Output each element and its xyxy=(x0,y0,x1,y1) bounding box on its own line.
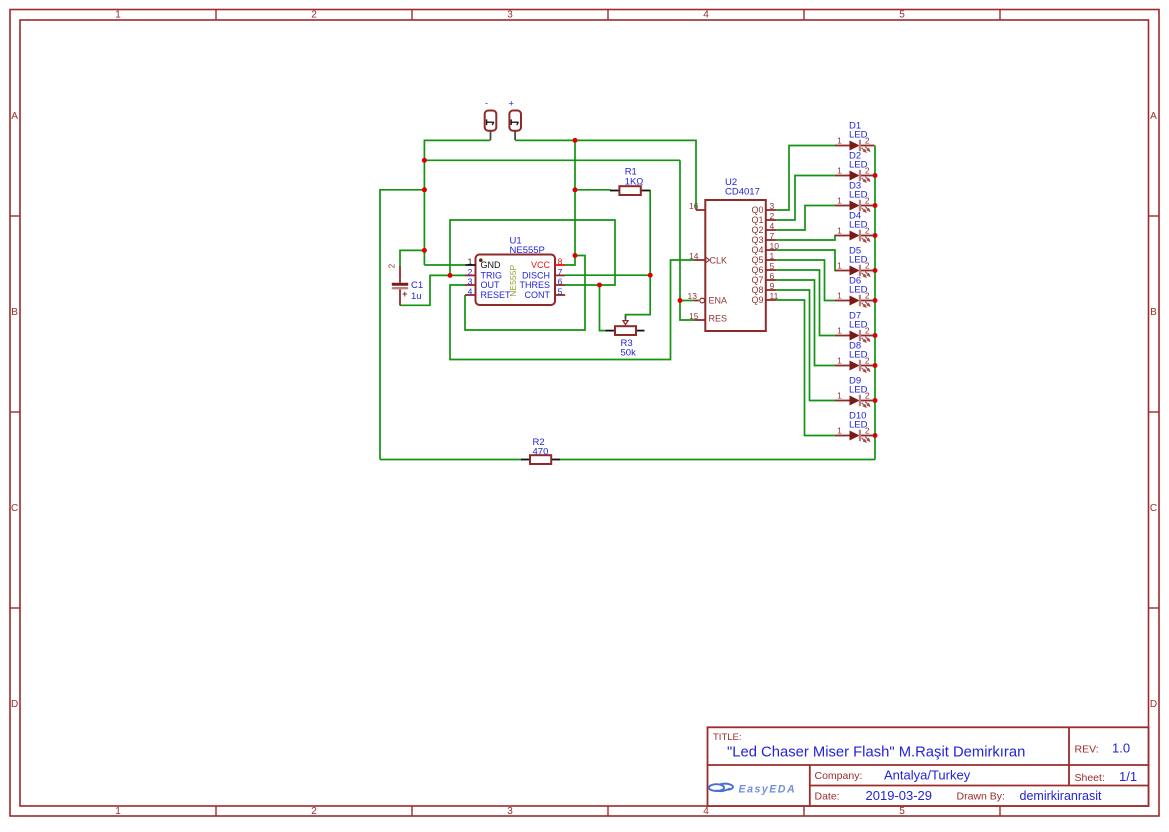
wire plus vertical x575 xyxy=(574,140,576,256)
svg-text:B: B xyxy=(1150,307,1157,318)
junction dot THRES node xyxy=(597,283,602,288)
junction dot rail2 branch xyxy=(422,158,427,163)
LED D5 xyxy=(835,265,875,277)
wire battery-minus top rail xyxy=(424,139,490,141)
svg-text:C1: C1 xyxy=(411,280,423,291)
label D4 xyxy=(849,211,861,222)
potentiometer R3 xyxy=(606,316,645,336)
U2 pin number 6 xyxy=(770,271,775,281)
svg-text:Antalya/Turkey: Antalya/Turkey xyxy=(884,768,971,783)
Date label xyxy=(815,791,840,803)
LED D6 pin number 2 xyxy=(865,290,870,300)
junction dot cathode rail D5 xyxy=(873,268,878,273)
LED D2 pin number 2 xyxy=(865,165,870,175)
U2 pin number 3 xyxy=(770,201,775,211)
label LED D10 xyxy=(849,420,868,431)
svg-text:A: A xyxy=(1150,111,1157,122)
svg-text:9: 9 xyxy=(770,281,775,291)
wire C1 top jog xyxy=(400,250,424,266)
wire minus branch left y190 xyxy=(380,189,424,191)
svg-text:4: 4 xyxy=(703,806,709,817)
U2 pin 14 CLK stub xyxy=(695,259,706,261)
svg-text:RESET: RESET xyxy=(481,290,512,300)
svg-text:Q6: Q6 xyxy=(751,265,763,275)
svg-text:D: D xyxy=(1150,699,1157,710)
U1 pin 1 GND stub xyxy=(466,264,476,266)
LED D1 xyxy=(835,140,875,152)
svg-text:Q4: Q4 xyxy=(751,245,763,255)
U2 pin Q9 stub xyxy=(766,299,776,301)
wire x680 down to RES xyxy=(680,160,695,320)
wire LED cathode rail x875 xyxy=(874,146,876,460)
U1 pin number 5 xyxy=(558,286,563,296)
junction dot cathode rail D8 xyxy=(873,363,878,368)
svg-text:VCC: VCC xyxy=(531,260,551,270)
junction dot minus-left branch xyxy=(422,187,427,192)
svg-text:2019-03-29: 2019-03-29 xyxy=(866,788,933,803)
U2 ENA bubble xyxy=(700,298,705,303)
svg-text:C: C xyxy=(1150,503,1157,514)
Date value xyxy=(866,788,933,803)
wire U2 Q0 to D1 anode xyxy=(776,146,836,211)
Sheet label xyxy=(1075,772,1105,784)
label NE555P xyxy=(510,245,545,256)
junction dot ENA node xyxy=(678,298,683,303)
svg-text:REV:: REV: xyxy=(1075,744,1099,756)
svg-text:LED: LED xyxy=(849,320,868,331)
svg-text:50k: 50k xyxy=(621,348,637,359)
resistor R2 xyxy=(521,455,560,464)
U2 pin name Q2 xyxy=(751,225,763,235)
wire TRIG-THRES loop xyxy=(450,220,615,285)
svg-text:4: 4 xyxy=(468,286,473,296)
svg-text:1: 1 xyxy=(837,290,842,300)
svg-text:B: B xyxy=(11,307,18,318)
title block TITLE label xyxy=(713,732,742,743)
U2 pin number 13 xyxy=(688,291,698,301)
LED D1 pin number 2 xyxy=(865,135,870,145)
LED D8 pin number 1 xyxy=(837,355,842,365)
LED D5 pin number 2 xyxy=(865,260,870,270)
svg-text:7: 7 xyxy=(770,231,775,241)
label LED D3 xyxy=(849,190,868,201)
wire to R1 left xyxy=(575,189,611,191)
label 1KΩ xyxy=(625,176,644,187)
U2 clock triangle xyxy=(706,257,710,263)
U2 pin number 15 xyxy=(689,311,699,321)
U1 pin name RESET xyxy=(481,290,512,300)
svg-text:14: 14 xyxy=(689,251,699,261)
svg-text:1: 1 xyxy=(770,251,775,261)
LED D7 pin number 2 xyxy=(865,325,870,335)
svg-text:NE555P: NE555P xyxy=(510,245,545,256)
wire x696 down to U2 pin16 xyxy=(695,140,697,211)
Drawn By label xyxy=(957,791,1005,803)
REV label xyxy=(1075,744,1099,756)
U1 pin 5 CONT stub xyxy=(555,294,565,296)
label 50k xyxy=(621,348,637,359)
svg-text:1.0: 1.0 xyxy=(1112,741,1130,756)
wire THRES to R3 left xyxy=(600,285,606,331)
svg-text:CONT: CONT xyxy=(525,290,551,300)
label C1 xyxy=(411,280,423,291)
label D6 xyxy=(849,276,861,287)
REV value xyxy=(1112,741,1130,756)
Company label xyxy=(815,770,863,782)
label R3 xyxy=(621,338,633,349)
EasyEDA logo xyxy=(709,783,796,795)
wire VCC-RESET loop xyxy=(465,256,585,331)
svg-text:ENA: ENA xyxy=(709,296,728,306)
label CD4017 xyxy=(725,187,760,198)
svg-text:LED: LED xyxy=(849,420,868,431)
svg-text:Q3: Q3 xyxy=(751,235,763,245)
label C1 plus xyxy=(402,289,407,299)
label - minus xyxy=(485,98,488,108)
svg-text:1KΩ: 1KΩ xyxy=(625,176,644,187)
U2 pin number 2 xyxy=(770,211,775,221)
junction dot cathode rail D10 xyxy=(873,433,878,438)
svg-text:TITLE:: TITLE: xyxy=(713,732,742,743)
U2 pin name Q6 xyxy=(751,265,763,275)
svg-text:1: 1 xyxy=(837,425,842,435)
svg-text:2: 2 xyxy=(311,9,317,20)
U2 pin name Q4 xyxy=(751,245,763,255)
U2 pin name CLK xyxy=(710,256,728,266)
svg-text:LED: LED xyxy=(849,190,868,201)
label D10 xyxy=(849,411,866,422)
LED D2 xyxy=(835,170,875,182)
svg-text:Q2: Q2 xyxy=(751,225,763,235)
label C1 pin 2 xyxy=(388,263,397,268)
U2 pin number 14 xyxy=(689,251,699,261)
svg-text:15: 15 xyxy=(689,311,699,321)
wire U2 Q3 to D4 anode xyxy=(776,236,836,241)
svg-text:4: 4 xyxy=(703,9,709,20)
counter U2 body xyxy=(705,200,766,331)
svg-text:2: 2 xyxy=(770,211,775,221)
svg-text:D: D xyxy=(11,699,18,710)
label U1 xyxy=(510,236,522,247)
svg-text:5: 5 xyxy=(558,286,563,296)
svg-text:LED: LED xyxy=(849,285,868,296)
U2 pin Q8 stub xyxy=(766,289,776,291)
LED D3 pin number 1 xyxy=(837,195,842,205)
svg-text:4: 4 xyxy=(770,221,775,231)
junction dot cathode rail D3 xyxy=(873,203,878,208)
wire left loop x380 xyxy=(379,189,381,460)
wire OUT to CLK xyxy=(450,260,695,360)
U2 pin name RES xyxy=(709,314,728,324)
svg-text:7: 7 xyxy=(558,267,563,277)
junction dot VCC-RESET xyxy=(573,253,578,258)
U1 pin 8 VCC stub xyxy=(555,264,565,266)
op-amp/timer U1 body xyxy=(476,255,556,306)
junction dot cathode rail D7 xyxy=(873,333,878,338)
svg-text:LED: LED xyxy=(849,220,868,231)
svg-text:DISCH: DISCH xyxy=(522,271,550,281)
junction dot C1 branch xyxy=(422,248,427,253)
wire U2 Q8 to D9 anode xyxy=(776,290,836,401)
svg-text:1: 1 xyxy=(468,256,473,266)
U2 pin name Q5 xyxy=(751,255,763,265)
U1 pin number 4 xyxy=(468,286,473,296)
LED D6 xyxy=(835,295,875,307)
wire U2 Q4 to D5 anode xyxy=(776,250,836,271)
U2 pin Q6 stub xyxy=(766,269,776,271)
U2 pin name Q7 xyxy=(751,275,763,285)
svg-text:Date:: Date: xyxy=(815,791,840,803)
LED D4 xyxy=(835,230,875,242)
label LED D7 xyxy=(849,320,868,331)
LED D10 pin number 2 xyxy=(865,425,870,435)
U1 pin 7 DISCH stub xyxy=(555,274,565,276)
title block grid xyxy=(708,727,1149,806)
label LED D8 xyxy=(849,350,868,361)
label LED D1 xyxy=(849,130,868,141)
svg-text:1: 1 xyxy=(837,390,842,400)
wire DISCH row xyxy=(565,274,650,276)
svg-text:3: 3 xyxy=(468,276,473,286)
svg-text:1: 1 xyxy=(837,325,842,335)
U1 pin name THRES xyxy=(519,280,550,290)
wire DISCH to R3 wiper xyxy=(626,275,651,318)
svg-text:3: 3 xyxy=(507,9,513,20)
junction dot cathode rail D2 xyxy=(873,173,878,178)
svg-text:6: 6 xyxy=(558,276,563,286)
wire VCC pin jog xyxy=(565,256,575,266)
LED D9 pin number 2 xyxy=(865,390,870,400)
LED D10 xyxy=(835,430,875,442)
U2 pin 15 RES stub xyxy=(695,319,706,321)
svg-text:16: 16 xyxy=(689,201,699,211)
U1 pin 4 RESET stub xyxy=(465,294,476,296)
LED D9 pin number 1 xyxy=(837,390,842,400)
Company value xyxy=(884,768,971,783)
U2 pin name Q3 xyxy=(751,235,763,245)
U2 pin 16 stub xyxy=(696,209,705,211)
svg-text:470: 470 xyxy=(533,446,549,457)
title text xyxy=(727,745,1025,761)
junction dot top rail at x575 xyxy=(573,138,578,143)
svg-text:1: 1 xyxy=(837,165,842,175)
U2 pin number 16 xyxy=(689,201,699,211)
svg-text:"Led Chaser Miser Flash" M.Raş: "Led Chaser Miser Flash" M.Raşit Demirkı… xyxy=(727,745,1025,761)
LED D3 xyxy=(835,200,875,212)
svg-text:+: + xyxy=(509,99,514,109)
wire U2 Q1 to D2 anode xyxy=(776,176,836,221)
junction dot cathode rail D9 xyxy=(873,398,878,403)
U1 pin name TRIG xyxy=(481,271,503,281)
svg-text:+: + xyxy=(402,289,407,299)
svg-text:Drawn By:: Drawn By: xyxy=(957,791,1005,803)
svg-text:10: 10 xyxy=(770,241,780,251)
U2 pin Q5 stub xyxy=(766,259,776,261)
svg-text:EasyEDA: EasyEDA xyxy=(739,783,797,795)
svg-text:2: 2 xyxy=(388,263,397,268)
svg-text:Q8: Q8 xyxy=(751,285,763,295)
wire U2 Q7 to D8 anode xyxy=(776,280,836,366)
junction dot R1 branch xyxy=(573,187,578,192)
LED D5 pin number 1 xyxy=(837,260,842,270)
svg-text:5: 5 xyxy=(770,261,775,271)
LED D7 xyxy=(835,330,875,342)
LED D3 pin number 2 xyxy=(865,195,870,205)
LED D8 pin number 2 xyxy=(865,355,870,365)
svg-text:GND: GND xyxy=(481,260,502,270)
U1 pin name DISCH xyxy=(522,271,550,281)
U1 pin number 1 xyxy=(468,256,473,266)
U2 pin name Q9 xyxy=(751,295,763,305)
svg-text:1: 1 xyxy=(115,806,121,817)
wire battery-plus top rail xyxy=(515,139,696,141)
wire U2 Q6 to D7 anode xyxy=(776,270,836,336)
U1 pin number 7 xyxy=(558,267,563,277)
LED D9 xyxy=(835,395,875,407)
svg-text:2: 2 xyxy=(311,806,317,817)
svg-text:demirkiranrasit: demirkiranrasit xyxy=(1020,789,1102,803)
svg-text:Sheet:: Sheet: xyxy=(1075,772,1105,784)
U2 pin Q3 stub xyxy=(766,239,776,241)
svg-text:13: 13 xyxy=(688,291,698,301)
svg-text:Q9: Q9 xyxy=(751,295,763,305)
U2 pin name ENA xyxy=(709,296,728,306)
LED D6 pin number 1 xyxy=(837,290,842,300)
battery terminal P1 (-) xyxy=(485,111,497,141)
svg-text:RES: RES xyxy=(709,314,728,324)
svg-text:2: 2 xyxy=(468,267,473,277)
LED D8 xyxy=(835,360,875,372)
U2 pin name Q8 xyxy=(751,285,763,295)
U2 pin name Q0 xyxy=(751,205,763,215)
LED D1 pin number 1 xyxy=(837,135,842,145)
svg-text:5: 5 xyxy=(899,9,905,20)
svg-text:3: 3 xyxy=(507,806,513,817)
U1 pin name GND xyxy=(481,260,502,270)
U2 pin Q7 stub xyxy=(766,279,776,281)
svg-text:Company:: Company: xyxy=(815,770,863,782)
svg-text:6: 6 xyxy=(770,271,775,281)
label D3 xyxy=(849,181,861,192)
U1 vertical NE555P text xyxy=(508,265,518,297)
LED D4 pin number 2 xyxy=(865,225,870,235)
svg-text:LED: LED xyxy=(849,160,868,171)
label U2 xyxy=(725,177,737,188)
svg-text:1: 1 xyxy=(837,195,842,205)
wire rail y160 to x680 xyxy=(424,159,681,161)
label LED D6 xyxy=(849,285,868,296)
U2 pin number 9 xyxy=(770,281,775,291)
wire U2 Q9 to D10 anode xyxy=(776,300,836,436)
U2 pin number 7 xyxy=(770,231,775,241)
svg-text:5: 5 xyxy=(899,806,905,817)
U1 pin 2 TRIG stub xyxy=(465,274,476,276)
LED D4 pin number 1 xyxy=(837,225,842,235)
LED D2 pin number 1 xyxy=(837,165,842,175)
label D8 xyxy=(849,341,861,352)
svg-text:C: C xyxy=(11,503,18,514)
U2 pin Q2 stub xyxy=(766,229,776,231)
svg-text:LED: LED xyxy=(849,350,868,361)
junction dot TRIG node xyxy=(448,273,453,278)
svg-text:1: 1 xyxy=(837,225,842,235)
battery terminal P2 (+) xyxy=(509,111,521,141)
label LED D5 xyxy=(849,255,868,266)
label D1 xyxy=(849,121,861,132)
svg-text:Q0: Q0 xyxy=(751,205,763,215)
U2 pin Q4 stub xyxy=(766,249,776,251)
svg-text:1/1: 1/1 xyxy=(1119,769,1137,784)
wire bottom R2 right to rail xyxy=(560,459,875,461)
svg-text:NE555P: NE555P xyxy=(508,265,518,297)
label D9 xyxy=(849,376,861,387)
U2 pin 13 ENA stub xyxy=(695,300,699,302)
svg-text:1: 1 xyxy=(837,260,842,270)
wire C1 bottom to TRIG xyxy=(400,275,465,305)
label D5 xyxy=(849,246,861,257)
U2 pin number 5 xyxy=(770,261,775,271)
Sheet value xyxy=(1119,769,1137,784)
U1 pin 6 THRES stub xyxy=(555,284,565,286)
svg-text:-: - xyxy=(485,98,488,108)
svg-text:A: A xyxy=(11,111,18,122)
label LED D2 xyxy=(849,160,868,171)
U1 pin name VCC xyxy=(531,260,551,270)
label R2 xyxy=(533,437,545,448)
U1 pin name CONT xyxy=(525,290,551,300)
svg-text:THRES: THRES xyxy=(519,280,550,290)
svg-text:8: 8 xyxy=(558,256,563,266)
U1 pin 3 OUT stub xyxy=(465,284,476,286)
label + plus xyxy=(509,99,514,109)
label LED D4 xyxy=(849,220,868,231)
svg-text:CLK: CLK xyxy=(710,256,728,266)
U2 pin name Q1 xyxy=(751,215,763,225)
U1 pin number 8 xyxy=(558,256,563,266)
svg-text:1: 1 xyxy=(837,355,842,365)
svg-text:CD4017: CD4017 xyxy=(725,187,760,198)
U1 pin number 2 xyxy=(468,267,473,277)
svg-text:TRIG: TRIG xyxy=(481,271,503,281)
U2 pin number 1 xyxy=(770,251,775,261)
svg-text:OUT: OUT xyxy=(481,280,501,290)
Drawn By value xyxy=(1020,789,1102,803)
label D2 xyxy=(849,151,861,162)
label LED D9 xyxy=(849,385,868,396)
label 1u xyxy=(411,291,422,302)
svg-text:1: 1 xyxy=(115,9,121,20)
label R1 xyxy=(625,167,637,178)
svg-text:1: 1 xyxy=(837,135,842,145)
svg-text:11: 11 xyxy=(770,291,779,301)
label 470 xyxy=(533,446,549,457)
LED D7 pin number 1 xyxy=(837,325,842,335)
svg-text:Q1: Q1 xyxy=(751,215,763,225)
resistor R1 xyxy=(610,186,650,195)
U1 pin name OUT xyxy=(481,280,501,290)
wire GND row to U1 pin1 xyxy=(424,264,465,266)
U1 pin number 3 xyxy=(468,276,473,286)
U2 pin number 11 xyxy=(770,291,779,301)
U1 pin number 6 xyxy=(558,276,563,286)
svg-text:LED: LED xyxy=(849,385,868,396)
svg-text:Q7: Q7 xyxy=(751,275,763,285)
junction dot DISCH node xyxy=(648,273,653,278)
junction dot cathode rail D4 xyxy=(873,233,878,238)
wire minus vertical x424 xyxy=(423,140,425,266)
svg-text:1u: 1u xyxy=(411,291,422,302)
capacitor C1 xyxy=(392,266,408,306)
